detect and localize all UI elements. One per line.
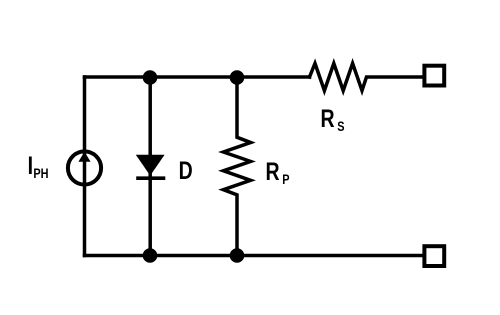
svg-text:D: D [179, 157, 193, 185]
svg-text:S: S [337, 119, 344, 135]
svg-text:R: R [266, 158, 280, 186]
svg-text:P: P [282, 172, 289, 188]
svg-text:PH: PH [33, 166, 48, 182]
svg-text:R: R [321, 105, 335, 133]
svg-text:I: I [28, 152, 33, 180]
